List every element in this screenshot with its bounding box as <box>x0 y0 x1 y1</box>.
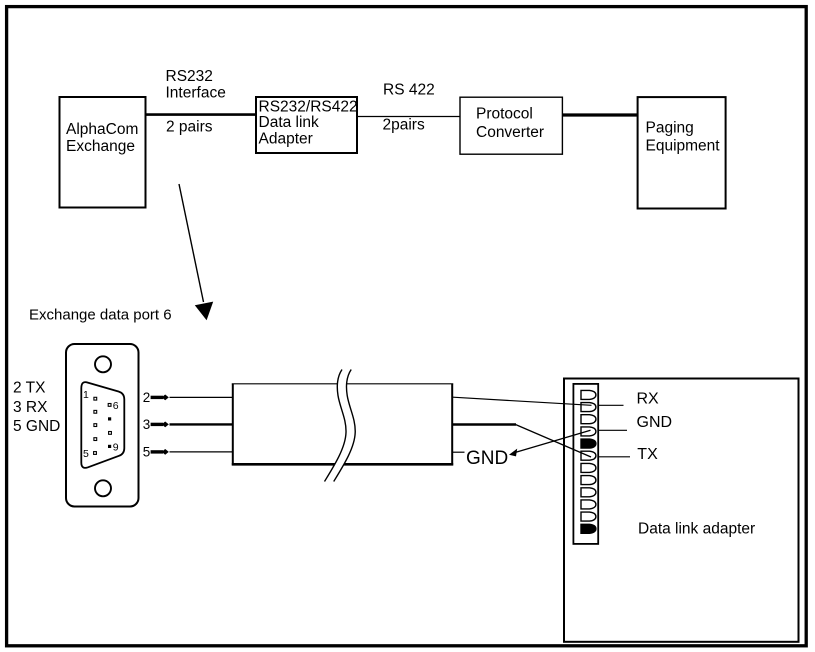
pin 2 <box>94 410 97 413</box>
pin 5 callout <box>143 445 169 460</box>
pin 6 <box>108 404 111 407</box>
TX terminal lead <box>599 456 630 458</box>
svg-text:GND: GND <box>466 448 508 469</box>
svg-text:9: 9 <box>113 441 119 453</box>
svg-text:Protocol: Protocol <box>476 106 533 123</box>
wire Data link adapter to Protocol Converter (RS422 pairs) <box>358 116 460 118</box>
terminal block <box>573 384 598 544</box>
svg-text:2 TX: 2 TX <box>13 380 46 397</box>
svg-text:TX: TX <box>637 446 658 463</box>
svg-text:Exchange data port 6: Exchange data port 6 <box>29 307 172 324</box>
pin 3 <box>94 424 97 427</box>
cable box <box>232 384 453 466</box>
terminal 5 (black) <box>581 439 596 448</box>
D-sub face <box>81 382 124 468</box>
GND terminal lead <box>599 429 627 431</box>
wire pin 2 to cable <box>170 396 234 398</box>
screw hole top <box>95 356 111 372</box>
box Protocol Converter <box>460 97 562 154</box>
wire pin 3 to cable <box>170 423 234 425</box>
wire cable to RX terminal <box>453 397 592 405</box>
pin 5 <box>94 452 97 455</box>
terminal 9 <box>581 488 596 497</box>
label RS232 Interface <box>166 68 226 102</box>
terminal 10 <box>581 500 596 509</box>
screw hole bottom <box>95 480 111 496</box>
svg-text:RS232: RS232 <box>166 68 213 85</box>
svg-text:Equipment: Equipment <box>646 138 721 155</box>
terminal 3 <box>581 415 596 424</box>
svg-text:Exchange: Exchange <box>66 138 135 155</box>
svg-text:Paging: Paging <box>646 120 694 137</box>
terminal 8 <box>581 476 596 485</box>
arrow from AlphaCom Exchange to exchange data port detail <box>179 184 213 320</box>
svg-text:3 RX: 3 RX <box>13 399 48 416</box>
svg-text:Data link: Data link <box>259 114 320 131</box>
svg-text:Interface: Interface <box>166 85 226 102</box>
svg-text:5 GND: 5 GND <box>13 418 60 435</box>
wire AlphaCom to Data link adapter (RS232 pairs) <box>147 113 257 116</box>
wire Protocol Converter to Paging Equipment <box>563 113 639 116</box>
svg-text:Converter: Converter <box>476 124 544 141</box>
terminal 7 <box>581 463 596 472</box>
label 2 TX / 3 RX / 5 GND <box>13 380 60 435</box>
pin 7 <box>108 417 111 420</box>
box RS232/RS422 Data link adapter <box>256 97 358 153</box>
wire cable GND stub <box>453 451 465 453</box>
svg-text:GND: GND <box>637 414 673 431</box>
wire pin 5 to cable <box>170 451 234 453</box>
svg-text:1: 1 <box>83 389 89 401</box>
wire cable to TX terminal <box>453 425 591 458</box>
pin 3 callout <box>143 417 169 432</box>
svg-text:AlphaCom: AlphaCom <box>66 121 138 138</box>
RX terminal lead <box>599 404 624 406</box>
svg-text:3: 3 <box>143 417 151 432</box>
svg-text:5: 5 <box>83 448 89 460</box>
svg-text:Data link adapter: Data link adapter <box>638 520 755 537</box>
svg-text:RS232/RS422: RS232/RS422 <box>259 99 358 116</box>
connector DB9 exchange data port 6 <box>66 344 139 507</box>
wire GND arrow to GND terminal <box>509 430 591 456</box>
terminal 2 RX <box>581 403 596 412</box>
box AlphaCom Exchange <box>60 97 146 208</box>
box Data link adapter (detail) <box>564 379 799 642</box>
terminal 12 (black) <box>581 524 596 533</box>
terminal 11 <box>581 512 596 521</box>
terminal 1 <box>581 390 596 399</box>
pin 4 <box>94 438 97 441</box>
svg-text:RS 422: RS 422 <box>383 82 435 99</box>
pin 1 <box>94 397 97 400</box>
pin 2 callout <box>143 390 169 405</box>
svg-text:2: 2 <box>143 390 151 405</box>
box Paging Equipment <box>638 97 726 208</box>
svg-text:RX: RX <box>637 390 660 407</box>
terminal 6 TX <box>581 451 596 460</box>
svg-text:6: 6 <box>113 400 119 412</box>
svg-text:2pairs: 2pairs <box>383 116 425 133</box>
svg-text:Adapter: Adapter <box>259 131 313 148</box>
pin 9 <box>108 445 111 448</box>
svg-text:2 pairs: 2 pairs <box>166 118 213 135</box>
terminal 4 GND <box>581 427 596 436</box>
svg-text:5: 5 <box>143 445 151 460</box>
cable break symbol <box>325 370 356 482</box>
pin 8 <box>109 432 112 435</box>
